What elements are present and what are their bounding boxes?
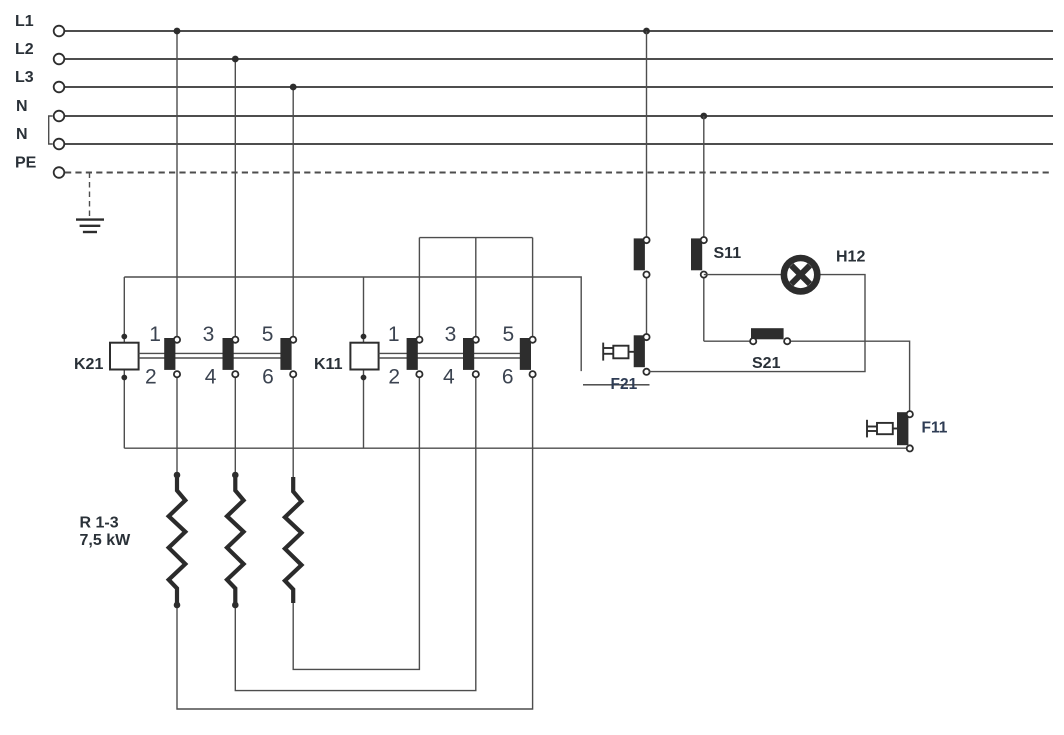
svg-text:R 1-3: R 1-3 bbox=[80, 514, 119, 531]
svg-text:F21: F21 bbox=[611, 376, 638, 393]
svg-text:4: 4 bbox=[443, 366, 455, 389]
svg-text:3: 3 bbox=[203, 323, 215, 346]
svg-text:7,5 kW: 7,5 kW bbox=[80, 532, 132, 549]
svg-text:4: 4 bbox=[205, 366, 217, 389]
svg-text:H12: H12 bbox=[836, 249, 865, 266]
svg-text:N: N bbox=[16, 126, 28, 143]
svg-text:1: 1 bbox=[388, 323, 400, 346]
svg-text:S11: S11 bbox=[714, 245, 742, 262]
svg-text:PE: PE bbox=[15, 155, 37, 172]
svg-text:6: 6 bbox=[502, 366, 514, 389]
svg-text:F11: F11 bbox=[922, 420, 948, 437]
svg-text:5: 5 bbox=[503, 323, 515, 346]
svg-text:N: N bbox=[16, 98, 28, 115]
svg-text:1: 1 bbox=[149, 323, 161, 346]
svg-text:K21: K21 bbox=[74, 356, 103, 373]
svg-text:6: 6 bbox=[262, 366, 274, 389]
svg-text:K11: K11 bbox=[314, 356, 343, 373]
svg-text:L3: L3 bbox=[15, 69, 34, 86]
svg-text:2: 2 bbox=[145, 366, 157, 389]
svg-text:L1: L1 bbox=[15, 13, 34, 30]
svg-text:3: 3 bbox=[445, 323, 457, 346]
svg-text:L2: L2 bbox=[15, 41, 34, 58]
svg-text:2: 2 bbox=[388, 366, 400, 389]
svg-text:5: 5 bbox=[262, 323, 274, 346]
svg-text:S21: S21 bbox=[752, 355, 781, 372]
